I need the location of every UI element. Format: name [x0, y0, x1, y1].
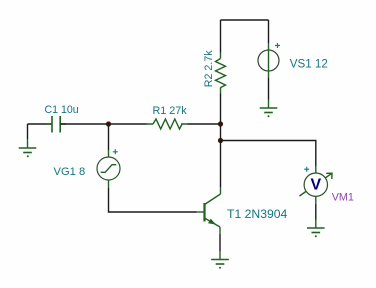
wire: R1 to collector node	[188, 123, 221, 125]
wire: VG1 bottom to transistor base	[109, 188, 197, 212]
wire: VS1 to ground	[268, 78, 270, 100]
ground pin (left)	[27, 139, 29, 148]
wire: C1 to R1	[60, 123, 146, 125]
wire: top rail	[221, 19, 269, 21]
node: base-R1-R2 junction	[218, 121, 223, 126]
T1 base pin	[197, 211, 204, 213]
T1 emitter pin	[219, 227, 221, 234]
resistor R1	[153, 119, 182, 129]
wire: output junction to VM1	[221, 141, 316, 167]
ground pin (emitter)	[219, 251, 221, 259]
wire: collector up to output junction	[220, 141, 222, 188]
transistor T1	[205, 194, 221, 227]
wire: top of R2 up	[220, 20, 222, 53]
svg-text:VS1 12: VS1 12	[290, 58, 328, 71]
svg-text:VG1 8: VG1 8	[54, 166, 86, 178]
svg-text:T1 2N3904: T1 2N3904	[227, 207, 288, 221]
VG1 top pin	[108, 150, 110, 157]
VS1 plus sign	[275, 43, 280, 48]
VM1 bottom pin	[315, 196, 317, 204]
VG1 bottom pin	[108, 180, 110, 188]
ground (emitter)	[211, 260, 229, 269]
svg-text:VM1: VM1	[332, 192, 354, 204]
wire: vertical between junctions	[220, 124, 222, 141]
VM1 plus sign	[304, 167, 309, 172]
generator VG1	[97, 157, 120, 180]
svg-text:V: V	[310, 176, 321, 193]
VG1 plus sign	[113, 149, 118, 154]
wire: R2 bottom to junction	[220, 94, 222, 125]
ground (below VS1)	[260, 108, 278, 117]
ground (left, input)	[19, 148, 37, 157]
resistor R2	[216, 59, 226, 88]
ground pin (VM1)	[315, 220, 317, 228]
svg-text:R1 27k: R1 27k	[153, 105, 188, 117]
source VS1	[258, 50, 279, 71]
VM1 top pin	[315, 166, 317, 173]
C1 pins	[46, 123, 66, 125]
ground (below VM1)	[307, 228, 325, 237]
wire: emitter down to ground	[219, 234, 221, 251]
node: collector-output junction	[218, 138, 223, 143]
wire: ground to C1	[28, 123, 52, 125]
T1 collector pin	[220, 187, 222, 194]
voltmeter VM1	[300, 173, 333, 196]
wire: VM1 to ground	[315, 204, 317, 220]
wire: junction down to VG1	[108, 124, 110, 150]
R2 pins	[220, 53, 222, 94]
svg-text:R2 2.7k: R2 2.7k	[203, 50, 215, 87]
capacitor C1	[52, 116, 60, 133]
wire: left ground stub	[27, 124, 29, 139]
node: input junction	[106, 121, 111, 126]
wire: top rail to VS1	[268, 20, 270, 43]
VS1 pin line through circle	[268, 43, 270, 78]
svg-text:C1 10u: C1 10u	[45, 104, 79, 116]
ground pin (VS1)	[268, 100, 270, 108]
R1 pins	[147, 123, 188, 125]
